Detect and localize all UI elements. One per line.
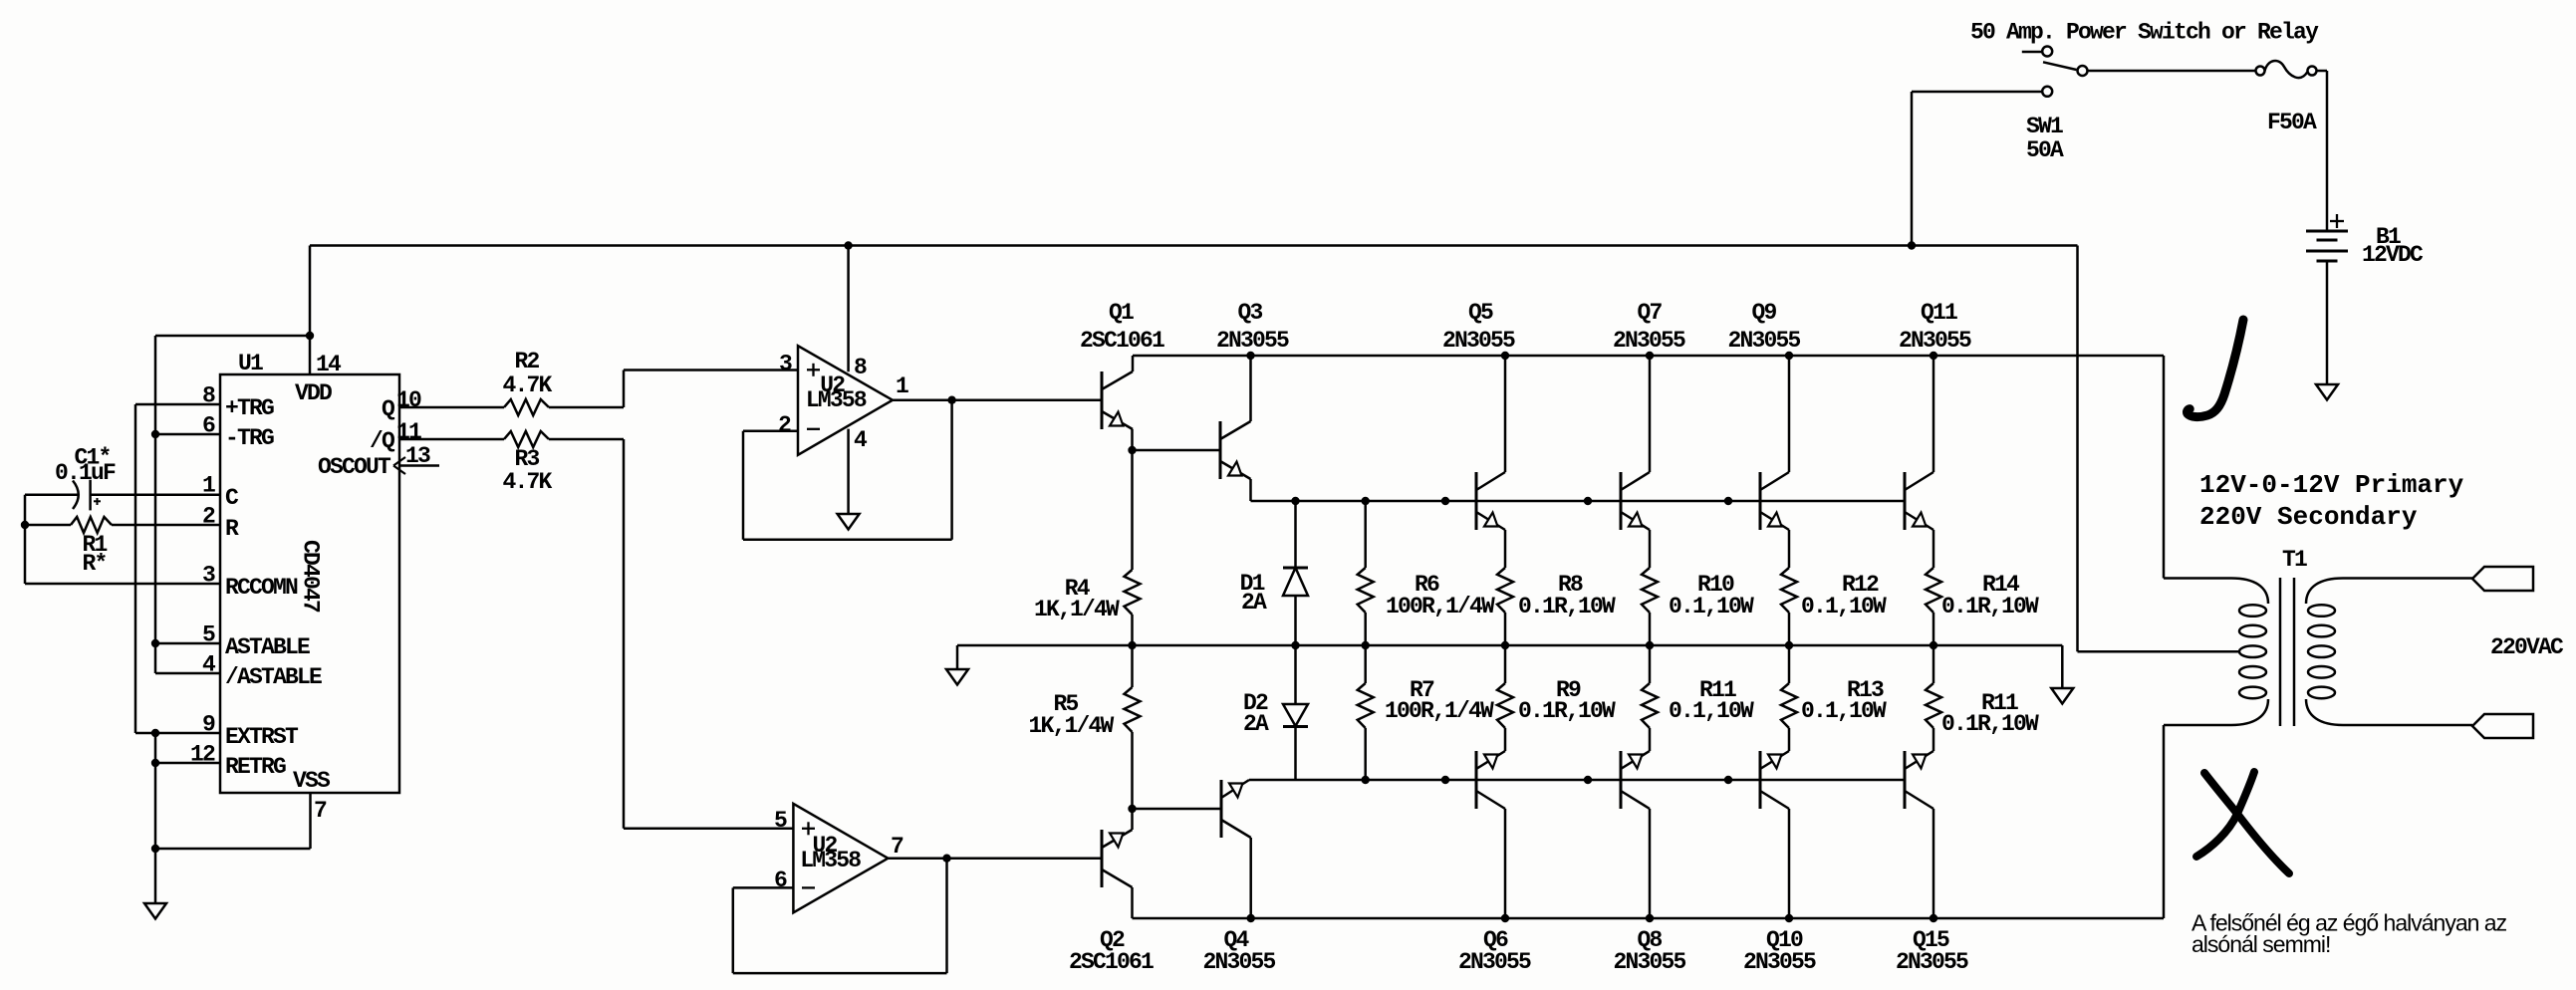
label R14 0.1R,10W bbox=[1941, 572, 2039, 619]
transistor Q2 2SC1061 bbox=[1102, 805, 1137, 918]
diode D1 2A bbox=[1283, 501, 1308, 645]
battery B1 bbox=[2306, 71, 2348, 384]
op-amp U2 LM358 (upper) bbox=[798, 346, 893, 455]
wire VDD branch to U1 pins 6,5,4 bbox=[151, 336, 310, 673]
svg-text:VDD: VDD bbox=[295, 380, 332, 406]
label 220V Secondary bbox=[2199, 502, 2418, 532]
label C1* 0.1uF bbox=[55, 445, 116, 487]
svg-text:Q3: Q3 bbox=[1237, 300, 1262, 326]
svg-text:/Q: /Q bbox=[370, 428, 395, 454]
resistor R8 bbox=[1497, 568, 1513, 645]
svg-text:RCCOMN: RCCOMN bbox=[225, 575, 298, 601]
svg-text:0.1,10W: 0.1,10W bbox=[1669, 594, 1754, 619]
svg-text:R*: R* bbox=[82, 551, 106, 577]
pin 4 V- to ground bbox=[849, 427, 868, 514]
svg-text:0.1R,10W: 0.1R,10W bbox=[1941, 594, 2039, 619]
pin 2 R bbox=[112, 504, 239, 543]
resistor R1 bbox=[21, 517, 112, 533]
svg-text:220V Secondary: 220V Secondary bbox=[2199, 502, 2418, 532]
svg-text:9: 9 bbox=[202, 712, 215, 738]
svg-text:2N3055: 2N3055 bbox=[1442, 328, 1515, 354]
label Q10 2N3055 bbox=[1743, 927, 1816, 975]
wire U1 VSS pin7 to ground bbox=[155, 793, 311, 849]
label Q15 2N3055 bbox=[1896, 927, 1968, 975]
pin 5 ASTABLE bbox=[155, 622, 310, 661]
resistor R10 bbox=[1642, 568, 1658, 645]
svg-text:R2: R2 bbox=[514, 349, 539, 374]
transistor Q4 2N3055 (driver) bbox=[1221, 780, 1251, 918]
wire R3 to op-amp pin5 bbox=[624, 439, 793, 829]
svg-text:2N3055: 2N3055 bbox=[1743, 949, 1816, 975]
label R8 0.1R,10W bbox=[1518, 572, 1616, 619]
connector 220VAC bottom bbox=[2472, 714, 2533, 738]
pin 7 output (lower op-amp) bbox=[888, 834, 1102, 863]
ground (battery) bbox=[2316, 384, 2338, 400]
resistor R2 bbox=[504, 399, 624, 415]
svg-text:1K,1/4W: 1K,1/4W bbox=[1029, 713, 1115, 739]
transformer T1 core bbox=[2280, 578, 2294, 726]
wire base rail upper (y=503) bbox=[1251, 497, 1906, 505]
svg-text:alsónál semmi!: alsónál semmi! bbox=[2191, 931, 2330, 957]
pin 11 /Q bbox=[370, 419, 504, 454]
svg-text:2SC1061: 2SC1061 bbox=[1080, 328, 1164, 354]
svg-text:2N3055: 2N3055 bbox=[1613, 949, 1685, 975]
svg-text:8: 8 bbox=[202, 383, 215, 409]
svg-text:2N3055: 2N3055 bbox=[1727, 328, 1800, 354]
svg-text:50A: 50A bbox=[2026, 137, 2064, 163]
pin 6 (lower op-amp) bbox=[733, 867, 794, 893]
label U2 LM358 upper bbox=[806, 372, 867, 413]
label D2 2A bbox=[1243, 690, 1269, 737]
svg-text:2: 2 bbox=[778, 412, 791, 438]
label CD4047 (rotated) bbox=[298, 540, 324, 613]
pin 6 -TRG bbox=[155, 413, 274, 452]
svg-text:RETRG: RETRG bbox=[225, 754, 286, 780]
pin 3 (upper op-amp) bbox=[779, 352, 792, 377]
svg-text:0.1uF: 0.1uF bbox=[55, 460, 116, 486]
svg-text:12VDC: 12VDC bbox=[2362, 242, 2424, 268]
ground (U1 VSS) bbox=[144, 849, 166, 919]
label Q8 2N3055 bbox=[1613, 927, 1685, 975]
label R10 0.1,10W bbox=[1669, 572, 1754, 619]
pin 7 VSS bbox=[293, 768, 331, 824]
svg-text:6: 6 bbox=[202, 413, 215, 439]
transformer T1 primary winding bbox=[2164, 579, 2268, 726]
svg-text:2N3055: 2N3055 bbox=[1202, 949, 1275, 975]
diode D2 2A bbox=[1283, 645, 1308, 780]
label Q6 2N3055 bbox=[1458, 927, 1531, 975]
label Q1 2SC1061 bbox=[1080, 300, 1164, 354]
svg-text:VSS: VSS bbox=[293, 768, 331, 794]
svg-text:Q1: Q1 bbox=[1109, 300, 1134, 326]
svg-text:14: 14 bbox=[316, 352, 342, 377]
svg-text:LM358: LM358 bbox=[800, 848, 861, 873]
pin 2 (upper op-amp) bbox=[743, 412, 798, 438]
svg-text:5: 5 bbox=[774, 808, 787, 834]
transistor Q9 2N3055 bbox=[1760, 356, 1789, 568]
label R7 100R,1/4W bbox=[1385, 677, 1494, 724]
pin 1 output bbox=[893, 373, 1102, 404]
hand-drawn check mark bbox=[2187, 320, 2243, 417]
wire U2b feedback bbox=[733, 859, 947, 973]
svg-text:13: 13 bbox=[405, 443, 430, 469]
svg-text:Q9: Q9 bbox=[1751, 300, 1776, 326]
label R12 0.1,10W bbox=[1801, 572, 1887, 619]
wire R2 to op-amp pin3 bbox=[624, 371, 798, 408]
wire U1 lower ground branch bbox=[151, 729, 159, 853]
transformer T1 secondary winding bbox=[2306, 579, 2472, 726]
label SW1 50A bbox=[2026, 114, 2064, 163]
IC U1 CD4047 body bbox=[220, 374, 399, 793]
label R1 R* bbox=[82, 532, 107, 577]
label R6 100R,1/4W bbox=[1386, 572, 1495, 619]
hand-drawn X mark bbox=[2196, 772, 2289, 873]
svg-text:LM358: LM358 bbox=[806, 387, 867, 413]
svg-text:R: R bbox=[225, 516, 239, 542]
svg-text:ASTABLE: ASTABLE bbox=[225, 634, 310, 660]
svg-text:1K,1/4W: 1K,1/4W bbox=[1034, 597, 1120, 622]
resistor R11 (lower) bbox=[1642, 645, 1658, 728]
label U2 LM358 lower bbox=[800, 833, 861, 873]
resistor R9 (lower) bbox=[1497, 645, 1513, 728]
label U1 bbox=[238, 351, 263, 376]
transistor Q3 2N3055 (driver) bbox=[1220, 356, 1251, 501]
svg-text:2N3055: 2N3055 bbox=[1458, 949, 1531, 975]
svg-text:12: 12 bbox=[190, 742, 215, 768]
label R11 0.1R,10W bbox=[1941, 690, 2039, 737]
pin 13 OSCOUT bbox=[318, 443, 439, 480]
svg-text:0.1R,10W: 0.1R,10W bbox=[1518, 594, 1616, 619]
pin 8 V+ (upper op-amp) bbox=[849, 246, 867, 381]
wire base rail lower (y=783) bbox=[1249, 776, 1905, 784]
resistor R7 bbox=[1358, 645, 1374, 780]
svg-text:4.7K: 4.7K bbox=[502, 469, 552, 495]
svg-text:100R,1/4W: 100R,1/4W bbox=[1385, 698, 1494, 724]
resistor R14 bbox=[1926, 568, 1941, 645]
label B1 12VDC bbox=[2362, 224, 2424, 268]
svg-text:50 Amp. Power Switch or Relay: 50 Amp. Power Switch or Relay bbox=[1970, 20, 2319, 46]
transistor Q11 2N3055 bbox=[1905, 356, 1933, 568]
connector 220VAC top bbox=[2472, 567, 2533, 591]
resistor R4 bbox=[1125, 450, 1141, 645]
transistor Q6 2N3055 bbox=[1476, 728, 1505, 918]
pin 5 (lower op-amp) bbox=[774, 808, 787, 834]
svg-text:0.1R,10W: 0.1R,10W bbox=[1941, 711, 2039, 737]
svg-text:2SC1061: 2SC1061 bbox=[1069, 949, 1154, 975]
svg-text:Q: Q bbox=[382, 396, 395, 422]
pin 9 EXTRST bbox=[135, 712, 299, 751]
svg-text:2N3055: 2N3055 bbox=[1613, 328, 1685, 354]
svg-text:+TRG: +TRG bbox=[225, 395, 274, 421]
capacitor C1 bbox=[25, 480, 101, 511]
transistor Q1 2SC1061 bbox=[1102, 356, 1137, 454]
svg-text:2A: 2A bbox=[1241, 590, 1267, 616]
svg-text:1: 1 bbox=[202, 473, 215, 499]
fuse F50A bbox=[2256, 61, 2328, 78]
wire Q1 emitter to Q3 base bbox=[1133, 449, 1221, 452]
svg-text:Q5: Q5 bbox=[1468, 300, 1493, 326]
label 12V-0-12V Primary bbox=[2199, 470, 2464, 500]
label R9 0.1R,10W bbox=[1518, 677, 1616, 724]
resistor R12 bbox=[1781, 568, 1797, 645]
svg-text:5: 5 bbox=[202, 622, 215, 648]
label Q9 2N3055 bbox=[1727, 300, 1800, 354]
svg-text:F50A: F50A bbox=[2267, 110, 2317, 135]
svg-text:7: 7 bbox=[314, 798, 327, 824]
label Q2 2SC1061 bbox=[1069, 927, 1154, 975]
pin 14 VDD bbox=[295, 352, 342, 406]
op-amp U2 LM358 (lower) bbox=[793, 804, 888, 912]
transistor Q5 2N3055 bbox=[1476, 356, 1505, 568]
transistor Q15 2N3055 bbox=[1905, 728, 1933, 918]
label R2 4.7K bbox=[502, 349, 552, 398]
svg-text:2A: 2A bbox=[1243, 711, 1269, 737]
svg-text:Q7: Q7 bbox=[1637, 300, 1662, 326]
label Q5 2N3055 bbox=[1442, 300, 1515, 354]
label Q11 2N3055 bbox=[1899, 300, 1971, 354]
pin 12 RETRG bbox=[155, 742, 286, 781]
svg-text:Q11: Q11 bbox=[1921, 300, 1957, 326]
svg-text:/ASTABLE: /ASTABLE bbox=[225, 664, 322, 690]
svg-text:100R,1/4W: 100R,1/4W bbox=[1386, 594, 1495, 619]
svg-text:6: 6 bbox=[774, 867, 787, 893]
svg-text:SW1: SW1 bbox=[2026, 114, 2063, 139]
ground (mid rail left) bbox=[946, 645, 968, 685]
svg-text:2N3055: 2N3055 bbox=[1899, 328, 1971, 354]
svg-text:CD4047: CD4047 bbox=[298, 540, 324, 613]
switch SW1 bbox=[1912, 47, 2088, 246]
label F50A bbox=[2267, 110, 2317, 135]
transistor Q8 2N3055 bbox=[1621, 728, 1650, 918]
svg-text:OSCOUT: OSCOUT bbox=[318, 454, 391, 480]
wire emitter/ground rail (y=648) bbox=[957, 641, 2062, 649]
svg-text:3: 3 bbox=[779, 352, 792, 377]
label 220VAC bbox=[2490, 634, 2564, 660]
wire U2a feedback bbox=[743, 400, 952, 540]
wire bottom rail to primary bottom bbox=[2163, 725, 2166, 918]
svg-text:1: 1 bbox=[896, 373, 908, 399]
wire C-R-RCCOMN loop bbox=[24, 495, 27, 584]
label Q3 2N3055 bbox=[1216, 300, 1289, 354]
svg-text:T1: T1 bbox=[2282, 547, 2307, 573]
svg-text:2N3055: 2N3055 bbox=[1216, 328, 1289, 354]
pin 10 Q bbox=[382, 387, 504, 422]
pin 8 +TRG bbox=[135, 383, 274, 422]
svg-text:11: 11 bbox=[396, 419, 421, 445]
svg-text:3: 3 bbox=[202, 563, 215, 589]
note hungarian text bbox=[2191, 910, 2507, 958]
resistor R11 (lower) bbox=[1926, 645, 1941, 728]
svg-text:EXTRST: EXTRST bbox=[225, 724, 299, 750]
svg-text:-TRG: -TRG bbox=[225, 425, 274, 451]
svg-text:0.1,10W: 0.1,10W bbox=[1801, 698, 1887, 724]
svg-text:0.1,10W: 0.1,10W bbox=[1801, 594, 1887, 619]
wire Q2 emitter to Q4 base bbox=[1133, 808, 1222, 811]
wire VDD drop to transformer center tap bbox=[2078, 246, 2240, 652]
resistor R3 bbox=[504, 431, 624, 447]
label R3 4.7K bbox=[502, 446, 552, 495]
ground (op-amp U2a) bbox=[838, 514, 860, 530]
svg-text:U1: U1 bbox=[238, 351, 263, 376]
wire collector rail to primary top bbox=[2163, 356, 2166, 579]
svg-text:C: C bbox=[225, 485, 239, 511]
svg-text:7: 7 bbox=[891, 834, 903, 860]
svg-text:8: 8 bbox=[854, 355, 867, 380]
wire U1 +TRG/EXTRST ground branch bbox=[134, 404, 137, 733]
resistor R6 bbox=[1358, 501, 1374, 645]
resistor R5 bbox=[1125, 645, 1141, 809]
wire VDD rail (battery + distribution, y=246.5) bbox=[310, 241, 2078, 249]
svg-text:4: 4 bbox=[854, 427, 868, 453]
transistor Q7 2N3055 bbox=[1621, 356, 1650, 568]
wire switch to fuse bbox=[2088, 70, 2256, 73]
pin 3 RCCOMN bbox=[25, 563, 298, 602]
svg-text:4: 4 bbox=[202, 652, 216, 678]
label Q7 2N3055 bbox=[1613, 300, 1685, 354]
wire bottom rail (y=922) bbox=[1133, 914, 2165, 922]
wire VDD down to U1 pin14 bbox=[306, 246, 314, 375]
svg-text:220VAC: 220VAC bbox=[2490, 634, 2564, 660]
transistor Q10 2N3055 bbox=[1760, 728, 1789, 918]
label T1 bbox=[2282, 547, 2307, 573]
label D1 2A bbox=[1240, 571, 1267, 616]
resistor R13 (lower) bbox=[1781, 645, 1797, 728]
svg-text:2N3055: 2N3055 bbox=[1896, 949, 1968, 975]
label R11 0.1,10W bbox=[1669, 677, 1754, 724]
svg-text:12V-0-12V Primary: 12V-0-12V Primary bbox=[2199, 470, 2464, 500]
svg-text:2: 2 bbox=[202, 504, 215, 530]
wire collector rail (top, y=357) bbox=[1133, 352, 2164, 360]
label Q4 2N3055 bbox=[1202, 927, 1275, 975]
pin 1 C bbox=[91, 473, 239, 512]
ground (mid rail right) bbox=[2051, 645, 2073, 704]
label 50 Amp. Power Switch or Relay bbox=[1970, 20, 2319, 46]
pin 4 /ASTABLE bbox=[155, 652, 322, 691]
label R4 1K,1/4W bbox=[1034, 576, 1120, 622]
svg-text:0.1,10W: 0.1,10W bbox=[1669, 698, 1754, 724]
svg-text:4.7K: 4.7K bbox=[502, 372, 552, 398]
svg-text:10: 10 bbox=[396, 387, 421, 413]
label R5 1K,1/4W bbox=[1029, 691, 1115, 739]
label R13 0.1,10W bbox=[1801, 677, 1887, 724]
svg-text:0.1R,10W: 0.1R,10W bbox=[1518, 698, 1616, 724]
